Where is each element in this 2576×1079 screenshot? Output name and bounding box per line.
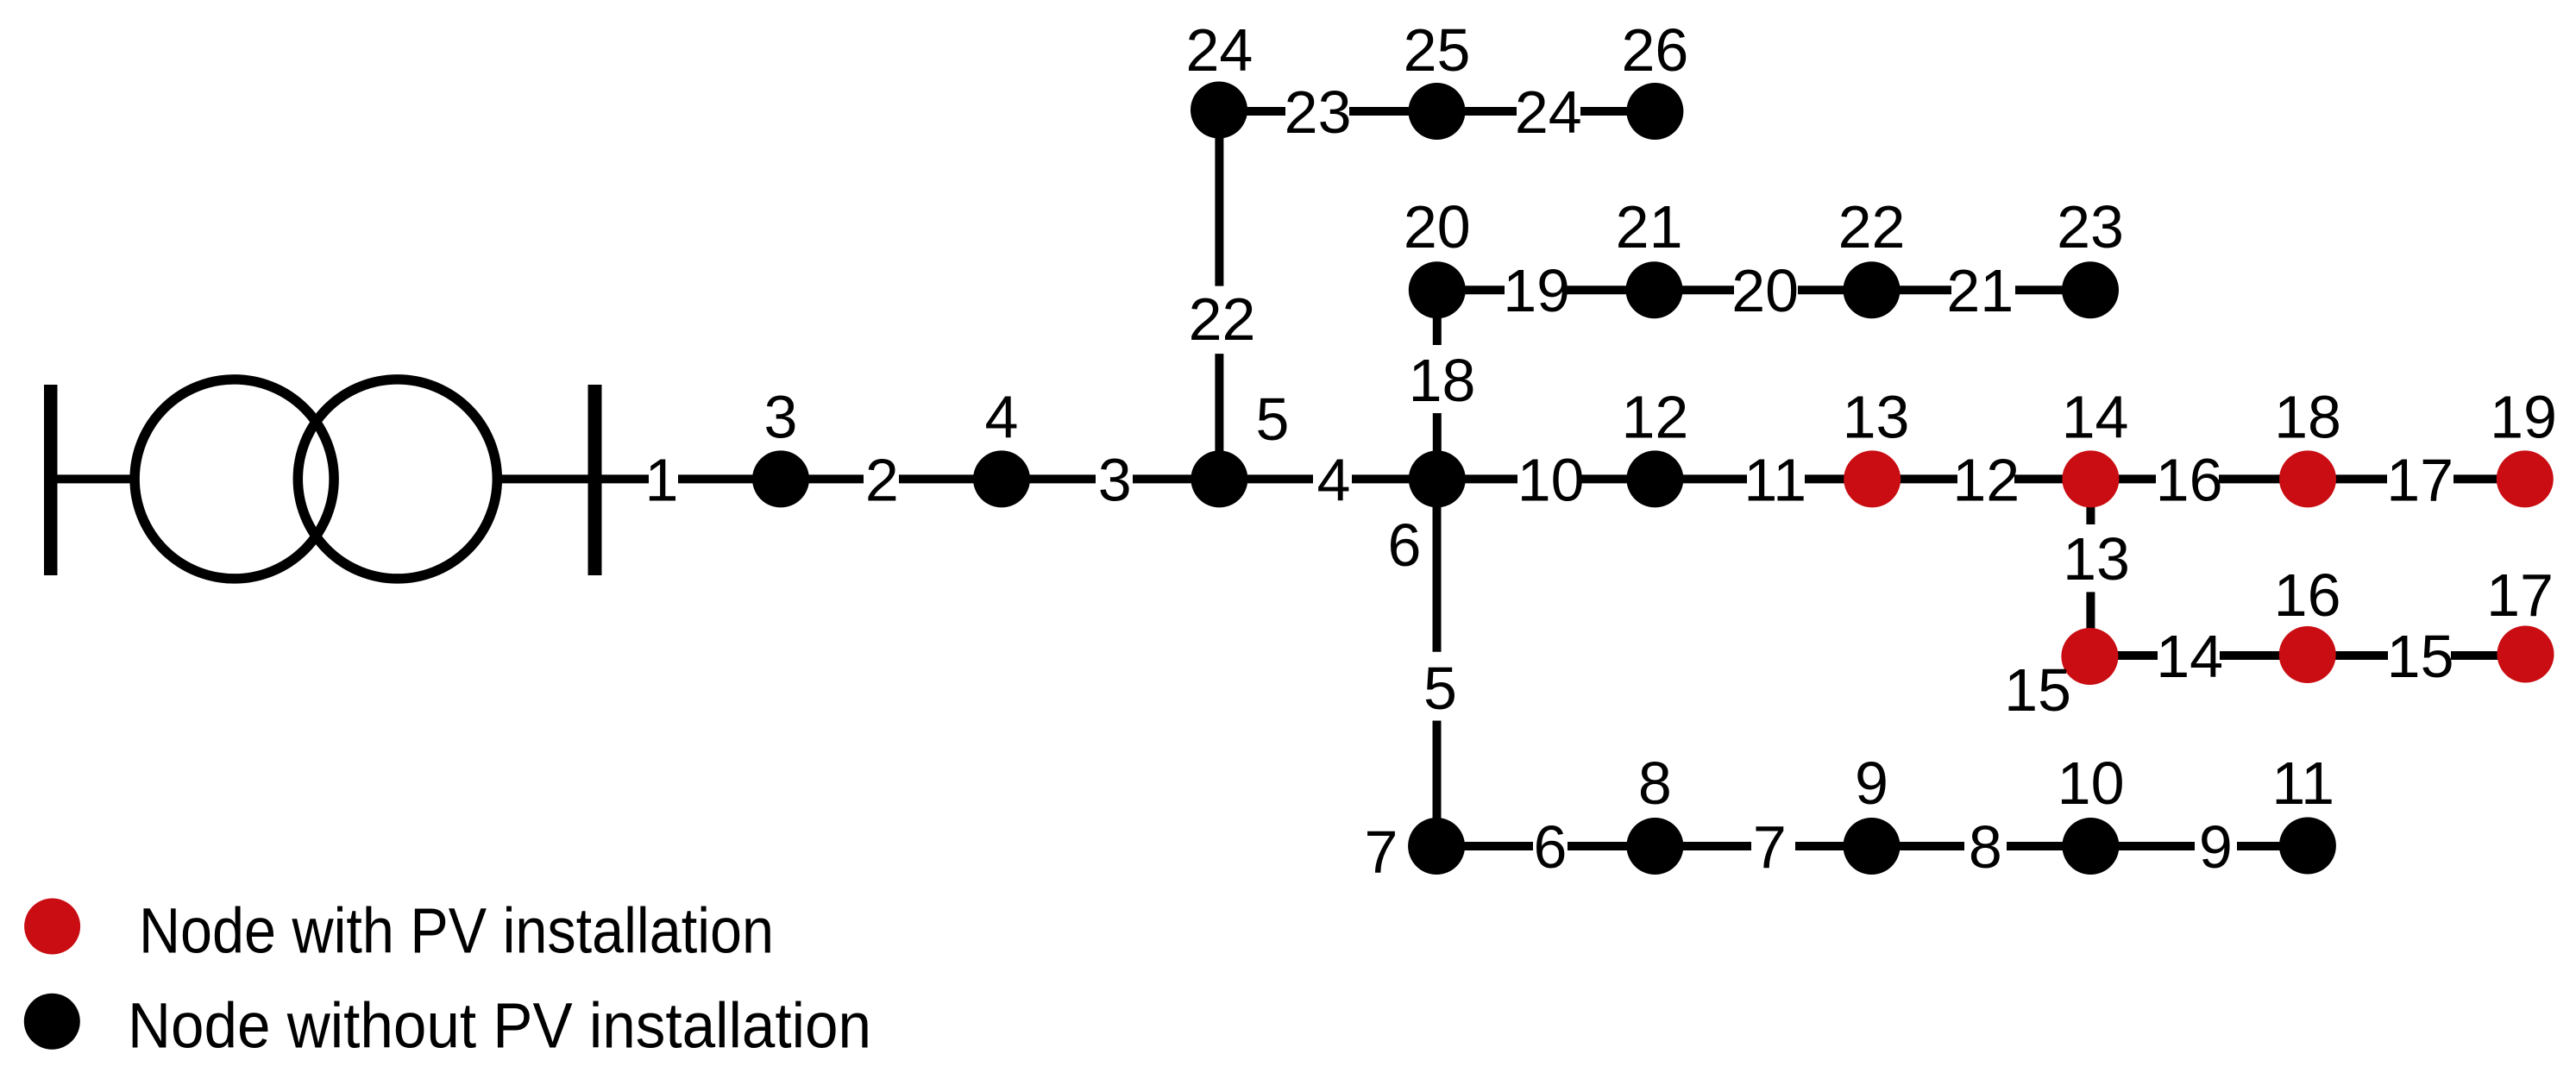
svg-text:7: 7 <box>1365 819 1398 886</box>
svg-text:Node without PV installation: Node without PV installation <box>128 990 871 1062</box>
svg-text:4: 4 <box>1317 446 1351 513</box>
svg-text:22: 22 <box>1838 193 1906 260</box>
svg-text:20: 20 <box>1731 257 1799 324</box>
svg-text:26: 26 <box>1621 16 1688 84</box>
svg-text:13: 13 <box>2063 525 2130 593</box>
svg-text:25: 25 <box>1404 16 1471 84</box>
svg-text:14: 14 <box>2062 384 2129 451</box>
svg-text:19: 19 <box>1503 257 1570 324</box>
svg-text:6: 6 <box>1534 813 1568 881</box>
svg-text:9: 9 <box>1855 750 1888 817</box>
svg-text:16: 16 <box>2156 446 2223 513</box>
svg-text:21: 21 <box>1616 193 1683 260</box>
svg-text:20: 20 <box>1404 193 1471 260</box>
svg-text:8: 8 <box>1969 813 2002 881</box>
svg-text:16: 16 <box>2274 561 2341 629</box>
svg-text:1: 1 <box>645 446 679 513</box>
svg-text:17: 17 <box>2386 446 2453 513</box>
svg-text:3: 3 <box>1098 446 1132 513</box>
svg-text:18: 18 <box>1409 347 1476 414</box>
svg-text:2: 2 <box>865 446 899 513</box>
svg-text:10: 10 <box>1517 446 1585 513</box>
svg-text:23: 23 <box>2057 193 2124 260</box>
svg-text:22: 22 <box>1189 285 1256 353</box>
svg-text:6: 6 <box>1388 511 1422 579</box>
svg-text:8: 8 <box>1638 750 1672 817</box>
svg-text:24: 24 <box>1515 78 1582 146</box>
svg-text:13: 13 <box>1843 384 1910 451</box>
svg-text:15: 15 <box>2004 656 2071 724</box>
svg-text:4: 4 <box>985 384 1019 451</box>
svg-text:11: 11 <box>1744 446 1806 513</box>
svg-text:23: 23 <box>1285 78 1352 146</box>
svg-text:14: 14 <box>2156 623 2223 690</box>
svg-text:12: 12 <box>1621 384 1688 451</box>
svg-text:21: 21 <box>1946 257 2014 324</box>
svg-text:24: 24 <box>1185 16 1253 84</box>
svg-text:15: 15 <box>2387 623 2454 690</box>
svg-text:11: 11 <box>2271 750 2334 817</box>
svg-text:18: 18 <box>2274 384 2341 451</box>
svg-text:9: 9 <box>2199 813 2233 881</box>
svg-text:7: 7 <box>1753 813 1787 881</box>
svg-text:5: 5 <box>1423 655 1457 722</box>
svg-text:3: 3 <box>764 384 798 451</box>
svg-text:17: 17 <box>2486 561 2554 629</box>
svg-text:10: 10 <box>2058 750 2125 817</box>
svg-text:19: 19 <box>2490 384 2557 451</box>
svg-text:Node with PV installation: Node with PV installation <box>139 895 774 967</box>
svg-text:12: 12 <box>1952 446 2020 513</box>
svg-text:5: 5 <box>1256 386 1290 453</box>
